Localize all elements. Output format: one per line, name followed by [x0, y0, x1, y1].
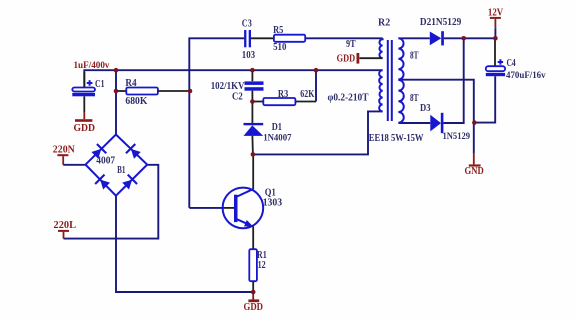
svg-text:103: 103 — [242, 50, 255, 61]
wire C3 to R5 segment — [251, 37, 274, 39]
junction node D1 anode / collector — [251, 152, 256, 157]
wire HV+ rail y=70 from C1 corner to transformer primary — [84, 70, 382, 87]
transformer primary tap GDD — [337, 53, 383, 64]
svg-text:4007: 4007 — [96, 156, 115, 167]
junction node C2 top — [250, 68, 255, 73]
junction node 12V rail — [493, 36, 498, 41]
transformer core — [388, 40, 392, 121]
transformer secondary top 8T winding — [398, 38, 403, 79]
junction node C2 bottom / R3 / D1 — [250, 99, 255, 104]
svg-text:220L: 220L — [54, 220, 77, 231]
svg-text:C2: C2 — [232, 92, 243, 103]
junction node R4 right — [188, 89, 193, 94]
junction node GND / C4 bottom — [472, 120, 477, 125]
ground GDD under C1 — [74, 112, 96, 134]
svg-text:D1: D1 — [272, 122, 282, 133]
junction node R1 bottom / ground rail — [251, 290, 256, 295]
diode D3 1N5129 — [420, 103, 470, 142]
terminal 220N — [53, 144, 76, 164]
transformer R2 primary 9T winding — [379, 38, 382, 58]
svg-text:9T: 9T — [346, 39, 356, 50]
resistor R1 12 — [249, 249, 266, 292]
svg-text:8T: 8T — [410, 50, 419, 61]
wire 220N to bridge left vertex — [63, 164, 85, 166]
svg-text:C1: C1 — [95, 79, 105, 90]
wire snubber return to primary bottom — [253, 111, 383, 154]
wire C4 bottom to GND node — [474, 76, 495, 122]
junction node R4 left — [114, 89, 119, 94]
svg-text:D3: D3 — [420, 103, 431, 114]
capacitor C4 470uF/16v — [486, 38, 546, 81]
wire top feedback run y=38.3 left segment — [189, 38, 244, 208]
svg-text:12V: 12V — [488, 8, 504, 19]
svg-text:GND: GND — [465, 166, 484, 177]
svg-text:1N5129: 1N5129 — [443, 132, 471, 142]
wire secondary top to D2 — [398, 37, 429, 39]
svg-text:8T: 8T — [410, 93, 419, 104]
capacitor C1 1uF/400v — [72, 61, 109, 112]
junction node D2 cathode — [461, 36, 466, 41]
wire bridge right vertex to 220L — [64, 165, 159, 239]
svg-text:R2: R2 — [378, 17, 390, 28]
bridge rectifier B1 4007 — [86, 135, 148, 196]
diode D2 1N5129 — [420, 17, 461, 45]
svg-text:470uF/16v: 470uF/16v — [506, 71, 546, 81]
svg-text:R3: R3 — [278, 89, 288, 100]
wire node x=116 vertical to bridge + — [115, 70, 117, 134]
transistor Q1 1303 — [223, 154, 283, 249]
transformer secondary bottom 8T winding — [398, 80, 403, 123]
svg-text:510: 510 — [273, 42, 286, 53]
svg-text:GDD: GDD — [74, 123, 96, 134]
svg-text:R5: R5 — [273, 25, 283, 36]
wire cathode join D2-D3 — [443, 38, 463, 123]
svg-text:220N: 220N — [53, 144, 76, 155]
transformer primary main winding — [379, 70, 382, 111]
svg-text:D21N5129: D21N5129 — [420, 17, 461, 28]
wire R5 to transformer primary top — [305, 37, 382, 39]
svg-text:1uF/400v: 1uF/400v — [74, 61, 110, 71]
power 12V — [488, 8, 504, 39]
svg-text:1N4007: 1N4007 — [263, 134, 292, 144]
svg-text:GDD: GDD — [337, 53, 356, 64]
capacitor C2 102/1KV — [211, 70, 264, 102]
svg-text:EE18 5W-15W: EE18 5W-15W — [369, 133, 424, 144]
ground GDD under R1 — [244, 292, 264, 313]
ground GND secondary — [465, 123, 484, 177]
wire base lead to Q1 — [189, 207, 222, 209]
diode D1 1N4007 — [244, 102, 292, 155]
wire D2 cathode to 12V node — [444, 37, 495, 39]
terminal 220L — [54, 220, 77, 239]
junction node C1/rail — [114, 68, 119, 73]
svg-text:62K: 62K — [300, 89, 314, 100]
resistor R3 62K — [252, 89, 316, 105]
capacitor C3 103 — [242, 19, 255, 61]
svg-text:680K: 680K — [125, 96, 147, 107]
svg-text:R4: R4 — [125, 78, 136, 89]
svg-text:12: 12 — [258, 260, 266, 271]
svg-text:C3: C3 — [242, 19, 252, 30]
wire R3 right vertical to rail — [315, 70, 317, 101]
svg-text:φ0.2-210T: φ0.2-210T — [328, 93, 369, 104]
resistor R4 680K — [116, 78, 190, 107]
resistor R5 510 — [273, 25, 305, 53]
svg-text:1303: 1303 — [263, 198, 282, 209]
wire bridge bottom vertex to ground rail — [116, 196, 253, 292]
svg-text:102/1KV: 102/1KV — [211, 81, 245, 92]
transformer labels — [328, 17, 424, 144]
svg-text:GDD: GDD — [244, 302, 264, 313]
wire secondary bottom to D3 — [398, 122, 430, 124]
svg-text:B1: B1 — [117, 165, 125, 176]
junction node R3 vertical — [314, 68, 319, 73]
svg-text:C4: C4 — [507, 58, 516, 69]
wire center tap to GND node — [398, 80, 473, 123]
